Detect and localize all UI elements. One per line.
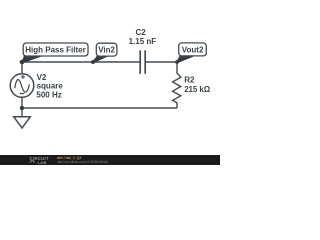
capacitor C2 (140, 50, 145, 74)
flag Vin2 tail (92, 55, 108, 62)
wire bottom segment (22, 107, 177, 109)
svg-text:square: square (37, 82, 64, 91)
watermark bar (0, 155, 220, 165)
svg-text:R2: R2 (184, 75, 195, 84)
node ground junction dot (20, 106, 24, 110)
wire V2 bottom to ground node (21, 97, 23, 108)
resistor R2 label (184, 75, 211, 94)
flag Vout2 tail (176, 55, 194, 62)
voltage source V2 (10, 74, 34, 98)
svg-text:LAB: LAB (38, 160, 47, 165)
flag High Pass Filter (23, 43, 88, 56)
flag High Pass Filter tail (21, 56, 42, 63)
svg-text:500 Hz: 500 Hz (36, 90, 61, 99)
wire top left segment (22, 61, 140, 63)
wire node A to V2 top (21, 62, 23, 74)
node Vout2 dot (175, 60, 179, 64)
capacitor C2 value label (129, 28, 157, 46)
svg-text:High Pass Filter: High Pass Filter (25, 46, 85, 55)
flag Vout2 (179, 43, 207, 56)
node Vin2 dot (91, 60, 95, 64)
svg-text:nttp://circuitlab.com/c/12226m: nttp://circuitlab.com/c/12226m/5bcqf (57, 160, 108, 164)
svg-text:Vin2: Vin2 (98, 46, 115, 55)
wire top right segment (145, 61, 177, 63)
node A dot (20, 60, 25, 65)
svg-text:V2: V2 (37, 73, 47, 82)
svg-text:C2: C2 (135, 28, 146, 37)
voltage source V2 label (36, 73, 63, 100)
svg-text:Vout2: Vout2 (182, 45, 204, 54)
flag Vin2 (96, 43, 117, 56)
wire Vout2 corner down to R2 top (176, 62, 178, 74)
svg-text:1.15 nF: 1.15 nF (129, 37, 157, 46)
svg-text:215 kΩ: 215 kΩ (184, 85, 211, 94)
resistor R2 (173, 73, 181, 103)
watermark CircuitLab logo (30, 156, 50, 165)
wire R2 bottom to bottom wire (176, 103, 178, 109)
ground (14, 108, 31, 128)
